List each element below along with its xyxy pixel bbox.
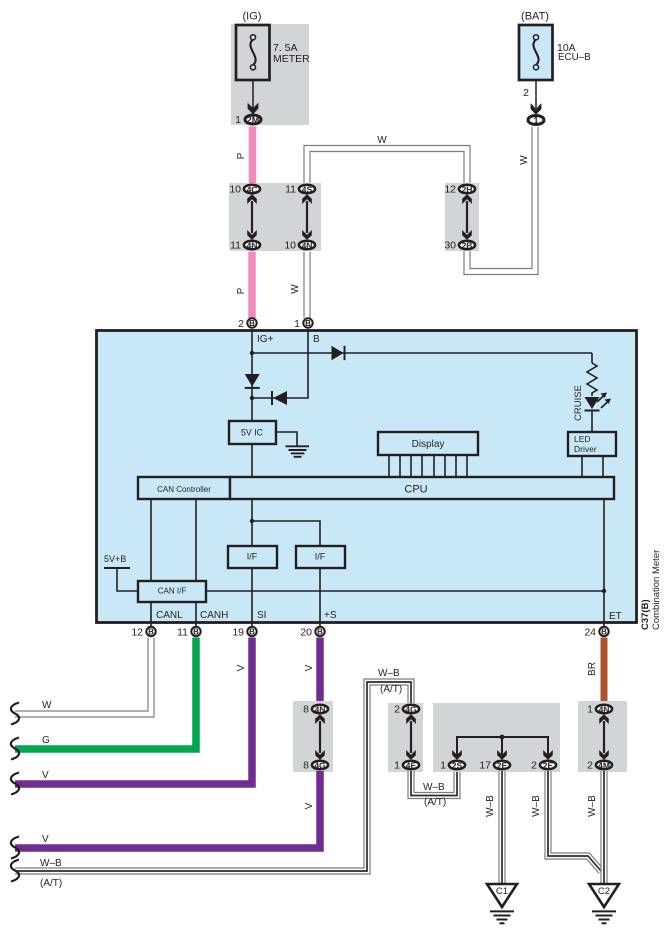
fuse F2 10A ECU-B bbox=[519, 25, 553, 80]
node bbox=[250, 519, 254, 523]
arrowhead into connector 1 bbox=[531, 103, 542, 115]
connector 4N right bbox=[299, 241, 315, 251]
svg-text:C2: C2 bbox=[598, 886, 610, 897]
arrow into 2E(2) bbox=[543, 750, 553, 760]
svg-text:C1: C1 bbox=[496, 886, 508, 897]
wire CAN I/F to ET line bbox=[206, 590, 604, 592]
arrow into 2E(17) bbox=[497, 750, 507, 760]
svg-text:CRUISE: CRUISE bbox=[573, 385, 584, 421]
svg-text:4N: 4N bbox=[315, 705, 326, 715]
pin 1 B bbox=[303, 318, 312, 328]
svg-text:20: 20 bbox=[300, 627, 312, 639]
svg-text:2: 2 bbox=[531, 760, 537, 772]
svg-text:B: B bbox=[305, 319, 311, 328]
svg-text:W: W bbox=[42, 700, 52, 711]
svg-text:2M: 2M bbox=[247, 115, 260, 125]
pin 2 B (IG+) bbox=[247, 318, 256, 328]
svg-text:8: 8 bbox=[303, 704, 309, 716]
pass-through arrow 4C-4N bbox=[247, 194, 257, 239]
5V+B rail symbol bbox=[104, 567, 130, 569]
connector 4S bbox=[299, 185, 315, 195]
internal bus wire bbox=[457, 737, 548, 757]
connector 4C bbox=[244, 185, 260, 195]
wire 5V+B to CAN I/F bbox=[117, 568, 138, 591]
svg-text:V: V bbox=[42, 834, 49, 845]
svg-text:W: W bbox=[290, 284, 301, 294]
svg-text:C37(B): C37(B) bbox=[640, 599, 651, 630]
pin 20 B bbox=[315, 627, 324, 637]
svg-text:ET: ET bbox=[609, 611, 622, 622]
svg-text:12: 12 bbox=[444, 184, 456, 196]
pin 24 B bbox=[599, 627, 608, 637]
LED Driver box bbox=[568, 432, 616, 456]
LED cruise bbox=[585, 393, 612, 433]
svg-text:W–B: W–B bbox=[587, 795, 598, 817]
svg-text:1: 1 bbox=[440, 760, 446, 772]
svg-text:4C: 4C bbox=[247, 185, 258, 195]
connector 2E(2) bbox=[540, 761, 556, 771]
wire B vertical and to diode bbox=[252, 330, 308, 398]
pass-through arrow 4N-4M bbox=[599, 714, 609, 759]
svg-text:I/F: I/F bbox=[315, 552, 326, 562]
pass-through arrow 4N-4G bbox=[315, 714, 325, 759]
svg-text:V: V bbox=[304, 664, 315, 671]
display pins bbox=[389, 455, 467, 477]
svg-text:SI: SI bbox=[257, 610, 266, 621]
svg-text:1: 1 bbox=[235, 114, 241, 126]
svg-text:4G: 4G bbox=[314, 761, 326, 771]
svg-text:Combination Meter: Combination Meter bbox=[651, 550, 662, 630]
wire W-B 2E(2) to ground C2 bbox=[548, 771, 602, 872]
svg-text:2: 2 bbox=[238, 318, 244, 330]
wire CANH to pin 11 bbox=[195, 602, 197, 626]
svg-text:30: 30 bbox=[444, 240, 456, 252]
break symbol bbox=[11, 837, 19, 859]
pin 12 B bbox=[146, 627, 155, 637]
wire I/F to +S pin bbox=[319, 568, 321, 626]
svg-text:G: G bbox=[42, 735, 50, 746]
svg-text:4N: 4N bbox=[247, 241, 258, 251]
svg-text:11: 11 bbox=[230, 240, 241, 252]
svg-text:10: 10 bbox=[229, 184, 241, 196]
wire CANL to pin 12 bbox=[150, 602, 152, 626]
wire W (white) connector 1 to 2B: down, left, up bbox=[467, 127, 535, 272]
wire CAN controller to CAN I/F (CANH) bbox=[195, 499, 197, 581]
svg-text:Driver: Driver bbox=[574, 444, 597, 454]
wire V (purple) pin 20 to 4N bbox=[316, 638, 324, 704]
svg-text:4G: 4G bbox=[405, 705, 417, 715]
wire V (purple) 4G to left break bbox=[15, 771, 320, 848]
wire W (white) pin 12 to left break bbox=[15, 638, 151, 715]
svg-text:5V+B: 5V+B bbox=[104, 554, 126, 564]
CPU box bbox=[230, 477, 614, 499]
connector 2H bbox=[459, 185, 475, 195]
svg-text:2: 2 bbox=[587, 760, 593, 772]
svg-text:B: B bbox=[601, 628, 607, 637]
ground (signal) bbox=[286, 446, 310, 457]
svg-text:(A/T): (A/T) bbox=[424, 797, 446, 808]
I/F box right bbox=[296, 546, 345, 568]
svg-text:BR: BR bbox=[587, 662, 598, 676]
svg-text:2: 2 bbox=[523, 87, 529, 99]
pin 19 B bbox=[247, 627, 256, 637]
svg-text:4M: 4M bbox=[598, 761, 610, 771]
svg-text:8: 8 bbox=[303, 760, 309, 772]
I/F box left bbox=[228, 546, 277, 568]
wire 5V IC to ground bbox=[276, 432, 297, 446]
connector 2B bbox=[459, 241, 475, 251]
wire ET from CPU to pin 24 bbox=[603, 499, 605, 626]
CAN I/F box bbox=[138, 581, 206, 602]
pass-through arrow 4S-4N bbox=[302, 194, 312, 239]
svg-text:1: 1 bbox=[294, 318, 300, 330]
wire down to resistor bbox=[591, 353, 593, 363]
svg-text:(IG): (IG) bbox=[243, 11, 262, 23]
svg-text:LED: LED bbox=[574, 434, 591, 444]
junction block background 4G/4E bbox=[388, 703, 423, 772]
svg-text:11: 11 bbox=[285, 184, 296, 196]
junction block background 2H/2B bbox=[445, 183, 479, 251]
svg-text:12: 12 bbox=[131, 627, 143, 639]
svg-text:2E: 2E bbox=[543, 761, 554, 771]
svg-text:V: V bbox=[236, 664, 247, 671]
wire G (green) pin 11 to left break bbox=[15, 638, 196, 750]
svg-text:B: B bbox=[249, 628, 255, 637]
node above 5V IC bbox=[250, 396, 254, 400]
node on bus bbox=[500, 735, 505, 740]
svg-text:B: B bbox=[148, 628, 154, 637]
wire W (white) 2H up, left, down to 4S bbox=[307, 149, 467, 186]
svg-text:19: 19 bbox=[232, 627, 244, 639]
svg-text:2H: 2H bbox=[462, 185, 473, 195]
wire fuse to connector 2M bbox=[252, 80, 254, 108]
svg-text:CANL: CANL bbox=[156, 610, 183, 621]
connector 4M bbox=[596, 761, 612, 771]
junction block background 4C/4N/4S/4N bbox=[229, 183, 321, 251]
svg-text:B: B bbox=[317, 628, 323, 637]
svg-text:1: 1 bbox=[587, 704, 593, 716]
wire CPU to I/F node bbox=[251, 499, 253, 546]
svg-text:B: B bbox=[313, 334, 320, 345]
svg-text:W: W bbox=[377, 135, 387, 146]
connector 4N bbox=[312, 705, 328, 715]
svg-text:V: V bbox=[42, 770, 49, 781]
diode D2 B to node (left) bbox=[272, 391, 287, 405]
connector 2M bbox=[245, 115, 261, 125]
fuse F1 7.5A METER bbox=[236, 25, 270, 80]
node on IG+ bbox=[250, 351, 254, 355]
svg-text:1: 1 bbox=[394, 760, 400, 772]
wire W-B 4M to ground C2 bbox=[600, 771, 607, 883]
fuse block background (IG) bbox=[231, 24, 309, 125]
connector 4G lower bbox=[403, 705, 419, 715]
connector 2E(17) bbox=[494, 761, 510, 771]
svg-text:+S: +S bbox=[324, 610, 337, 621]
svg-text:ECU–B: ECU–B bbox=[558, 52, 591, 63]
svg-text:IG+: IG+ bbox=[257, 334, 274, 345]
break symbol bbox=[11, 738, 19, 760]
svg-text:I/F: I/F bbox=[247, 552, 258, 562]
wire fuse to connector 1 bbox=[535, 80, 537, 108]
wire IG+ vertical into 5V IC bbox=[251, 330, 253, 421]
break symbol bbox=[11, 860, 19, 882]
CAN Controller box bbox=[138, 477, 230, 499]
connector 4E bbox=[403, 761, 419, 771]
ground C2 bbox=[589, 884, 619, 923]
svg-text:P: P bbox=[236, 152, 247, 159]
wire node to I/F right bbox=[252, 521, 320, 546]
svg-text:CPU: CPU bbox=[404, 484, 427, 496]
connector 4N left bbox=[244, 241, 260, 251]
wire W-B (A/T) 4E to 2S (U shape) bbox=[411, 771, 457, 796]
wire P (pink) 4N to meter pin 2 bbox=[248, 252, 256, 319]
svg-text:4E: 4E bbox=[406, 761, 417, 771]
svg-text:4N: 4N bbox=[302, 241, 313, 251]
connector 4N lower bbox=[596, 705, 612, 715]
pin 11 B bbox=[191, 627, 200, 637]
break symbol bbox=[11, 703, 19, 725]
5V IC box bbox=[229, 421, 276, 444]
svg-text:V: V bbox=[304, 802, 315, 809]
resistor R1 (cruise) bbox=[587, 363, 597, 396]
connector 2S bbox=[449, 761, 465, 771]
wire W-B (A/T) left break to 4G(2) bbox=[15, 682, 411, 871]
svg-text:W–B: W–B bbox=[378, 668, 400, 679]
combination meter box C37(B) bbox=[97, 331, 637, 623]
svg-text:1: 1 bbox=[533, 115, 538, 125]
svg-text:2: 2 bbox=[394, 704, 400, 716]
svg-text:4S: 4S bbox=[302, 185, 313, 195]
svg-text:24: 24 bbox=[584, 627, 596, 639]
svg-text:CANH: CANH bbox=[200, 610, 228, 621]
arrowhead into 2M bbox=[248, 103, 259, 115]
svg-text:(A/T): (A/T) bbox=[380, 684, 402, 695]
wire W-B 2E(17) to ground C1 bbox=[498, 771, 505, 883]
svg-text:B: B bbox=[249, 319, 255, 328]
svg-text:P: P bbox=[236, 287, 247, 294]
svg-text:Display: Display bbox=[412, 439, 445, 450]
svg-text:(BAT): (BAT) bbox=[521, 11, 549, 23]
diode D1 on IG+ line (down) bbox=[245, 374, 260, 388]
svg-text:11: 11 bbox=[177, 627, 188, 639]
svg-text:W–B: W–B bbox=[531, 795, 542, 817]
svg-text:(A/T): (A/T) bbox=[40, 878, 62, 889]
wire I/F to SI pin bbox=[251, 568, 253, 626]
wire IG+ branch to cruise resistor bbox=[252, 352, 592, 354]
wire 5V IC to CPU bbox=[251, 444, 253, 477]
pass-through arrow 4G-4E bbox=[406, 714, 416, 759]
internal bus drop to 2E(17) bbox=[501, 737, 503, 757]
wire V (purple) pin 19 to left break bbox=[15, 638, 252, 785]
svg-text:W–B: W–B bbox=[423, 782, 445, 793]
svg-text:CAN Controller: CAN Controller bbox=[157, 485, 211, 494]
pass-through arrow 2H-2B bbox=[462, 194, 472, 239]
wire P (pink) 2M to 4C bbox=[249, 127, 257, 184]
wire BR (brown) pin 24 to 4N bbox=[601, 638, 608, 704]
svg-text:B: B bbox=[193, 628, 199, 637]
svg-text:10: 10 bbox=[284, 240, 296, 252]
svg-text:2B: 2B bbox=[462, 241, 473, 251]
svg-text:W–B: W–B bbox=[485, 795, 496, 817]
break symbol bbox=[11, 773, 19, 795]
wire CAN controller to CAN I/F (CANL) bbox=[150, 499, 152, 581]
connector 1 bbox=[528, 115, 544, 125]
svg-text:2S: 2S bbox=[452, 761, 463, 771]
ground C1 bbox=[487, 884, 517, 923]
node ET / CAN I/F bbox=[602, 589, 606, 593]
arrow into 2S bbox=[452, 750, 462, 760]
svg-text:2E: 2E bbox=[497, 761, 508, 771]
svg-text:5V IC: 5V IC bbox=[241, 428, 264, 438]
junction block background 4N/4G bbox=[293, 701, 333, 772]
diode D3 on branch (right) bbox=[332, 346, 345, 360]
junction block background 2S/2E/2E bbox=[433, 703, 560, 772]
connector 4G bbox=[312, 761, 328, 771]
svg-text:4N: 4N bbox=[599, 705, 610, 715]
svg-text:W: W bbox=[519, 155, 530, 165]
svg-text:METER: METER bbox=[273, 53, 310, 65]
svg-text:W–B: W–B bbox=[40, 858, 62, 869]
Display box bbox=[378, 432, 478, 455]
junction block background 4N/4M bbox=[578, 701, 627, 772]
wire W (white) 4N to meter pin 1 bbox=[303, 252, 310, 319]
wires LED driver to CPU bbox=[581, 456, 583, 477]
svg-text:CAN I/F: CAN I/F bbox=[158, 587, 187, 596]
svg-text:17: 17 bbox=[479, 760, 491, 772]
